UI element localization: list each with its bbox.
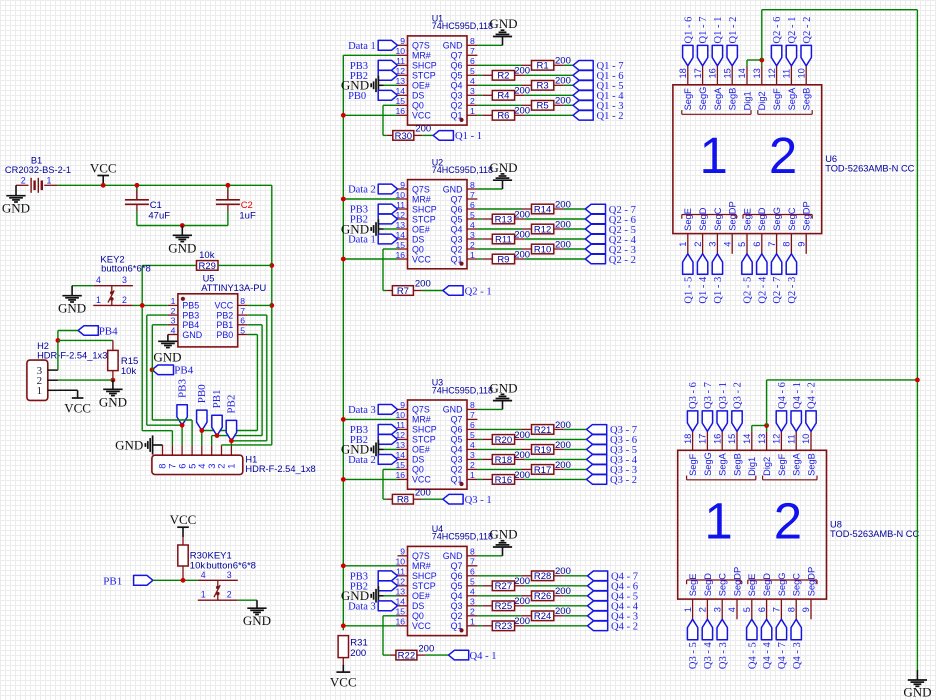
svg-text:Q3: Q3 — [451, 234, 463, 244]
svg-text:Q4 - 6: Q4 - 6 — [777, 382, 788, 409]
svg-text:Q7: Q7 — [451, 415, 463, 425]
svg-text:13: 13 — [752, 68, 762, 78]
svg-text:VCC: VCC — [214, 301, 233, 311]
svg-text:3: 3 — [207, 464, 217, 469]
svg-text:9: 9 — [400, 180, 405, 190]
svg-text:14: 14 — [737, 68, 747, 78]
svg-text:Q4 - 4: Q4 - 4 — [762, 642, 773, 670]
svg-text:HDR-F-2.54_1x3: HDR-F-2.54_1x3 — [37, 350, 107, 360]
svg-text:3: 3 — [470, 597, 475, 607]
svg-text:GND: GND — [489, 16, 517, 31]
svg-text:GND: GND — [903, 685, 931, 700]
svg-text:Q7: Q7 — [451, 561, 463, 571]
svg-text:R7: R7 — [397, 286, 409, 297]
svg-text:15: 15 — [727, 434, 737, 444]
svg-text:200: 200 — [555, 56, 571, 67]
svg-text:8: 8 — [786, 607, 796, 612]
svg-text:Q4 - 5: Q4 - 5 — [747, 642, 758, 669]
svg-text:200: 200 — [514, 576, 530, 587]
svg-text:17: 17 — [693, 68, 703, 78]
svg-text:1uF: 1uF — [239, 211, 256, 222]
svg-text:DS: DS — [412, 91, 424, 101]
svg-text:GND: GND — [489, 380, 517, 395]
svg-text:ATTINY13A-PU: ATTINY13A-PU — [201, 283, 266, 293]
svg-text:6: 6 — [757, 607, 767, 612]
svg-text:8: 8 — [470, 180, 475, 190]
svg-text:200: 200 — [350, 648, 366, 659]
svg-text:VCC: VCC — [412, 254, 431, 264]
svg-text:Q7S: Q7S — [412, 41, 430, 51]
svg-text:Q3 - 1: Q3 - 1 — [465, 495, 492, 506]
svg-text:C2: C2 — [241, 200, 253, 211]
svg-text:SegB: SegB — [728, 88, 738, 111]
svg-text:Q2 - 6: Q2 - 6 — [772, 17, 783, 44]
svg-text:VCC: VCC — [330, 675, 357, 690]
svg-text:SegE: SegE — [683, 208, 693, 231]
svg-text:2: 2 — [470, 96, 475, 106]
svg-text:5: 5 — [737, 242, 747, 247]
svg-text:4: 4 — [470, 220, 475, 230]
svg-text:Q4: Q4 — [451, 445, 463, 455]
svg-text:18: 18 — [678, 68, 688, 78]
svg-text:Q3 - 5: Q3 - 5 — [688, 642, 699, 669]
svg-text:7: 7 — [767, 242, 777, 247]
svg-text:200: 200 — [555, 440, 571, 451]
svg-text:4: 4 — [722, 242, 732, 247]
svg-text:200: 200 — [555, 219, 571, 230]
svg-text:4: 4 — [470, 76, 475, 86]
svg-text:3: 3 — [122, 275, 127, 285]
svg-text:R30: R30 — [395, 131, 412, 142]
svg-text:R22: R22 — [398, 651, 415, 662]
svg-text:MR#: MR# — [412, 415, 431, 425]
svg-text:GND: GND — [58, 301, 86, 316]
svg-text:Q4 - 1: Q4 - 1 — [470, 651, 497, 662]
svg-text:Data 3: Data 3 — [348, 602, 376, 613]
svg-text:200: 200 — [555, 606, 571, 617]
svg-text:R29: R29 — [198, 261, 215, 272]
svg-text:R13: R13 — [495, 214, 512, 225]
svg-text:R1: R1 — [537, 61, 549, 72]
svg-text:6: 6 — [752, 242, 762, 247]
svg-text:PB4: PB4 — [99, 325, 118, 337]
svg-text:Q1 - 1: Q1 - 1 — [713, 17, 724, 44]
svg-text:R4: R4 — [497, 91, 509, 102]
svg-text:7: 7 — [470, 190, 475, 200]
svg-text:GND: GND — [115, 437, 143, 452]
svg-text:Q1: Q1 — [451, 621, 463, 631]
svg-text:SegD: SegD — [703, 573, 713, 597]
svg-text:button6*6*8: button6*6*8 — [101, 264, 151, 275]
svg-text:8: 8 — [158, 464, 168, 469]
svg-text:Q2: Q2 — [451, 101, 463, 111]
svg-text:R19: R19 — [534, 445, 551, 456]
svg-text:R11: R11 — [495, 234, 512, 245]
svg-text:5: 5 — [470, 430, 475, 440]
svg-text:Q4 - 7: Q4 - 7 — [777, 642, 788, 669]
svg-text:Data 3: Data 3 — [348, 405, 376, 416]
svg-text:200: 200 — [555, 76, 571, 87]
svg-text:C1: C1 — [150, 200, 162, 211]
svg-text:DS: DS — [412, 601, 424, 611]
svg-text:6: 6 — [470, 200, 475, 210]
svg-text:Q1 - 3: Q1 - 3 — [713, 277, 724, 304]
svg-text:PB0: PB0 — [348, 91, 366, 102]
svg-text:Data 2: Data 2 — [348, 455, 376, 466]
svg-text:SegE: SegE — [747, 574, 757, 597]
svg-text:CR2032-BS-2-1: CR2032-BS-2-1 — [5, 165, 71, 175]
svg-text:74HC595D,118: 74HC595D,118 — [432, 21, 493, 31]
svg-text:1: 1 — [470, 250, 475, 260]
svg-text:9: 9 — [400, 36, 405, 46]
svg-text:200: 200 — [415, 279, 431, 290]
svg-text:Q3 - 2: Q3 - 2 — [733, 382, 744, 409]
svg-text:TOD-5263AMB-N CC: TOD-5263AMB-N CC — [830, 529, 919, 539]
svg-text:SegG: SegG — [698, 87, 708, 111]
svg-text:Q1 - 5: Q1 - 5 — [683, 277, 694, 304]
svg-text:2: 2 — [21, 176, 26, 186]
svg-text:VCC: VCC — [170, 512, 197, 527]
svg-text:7: 7 — [772, 607, 782, 612]
svg-text:Q7: Q7 — [451, 51, 463, 61]
svg-text:SegC: SegC — [718, 573, 728, 597]
svg-text:14: 14 — [742, 434, 752, 444]
svg-text:200: 200 — [514, 209, 530, 220]
svg-text:Q2 - 1: Q2 - 1 — [787, 17, 798, 44]
svg-text:MR#: MR# — [412, 561, 431, 571]
svg-text:9: 9 — [400, 547, 405, 557]
svg-text:Q3: Q3 — [451, 455, 463, 465]
svg-text:SegG: SegG — [772, 207, 782, 231]
svg-text:2: 2 — [698, 607, 708, 612]
svg-text:GND: GND — [443, 41, 463, 51]
svg-text:GND: GND — [443, 405, 463, 415]
svg-text:OE#: OE# — [412, 224, 430, 234]
svg-text:PB0: PB0 — [216, 330, 233, 340]
svg-text:R26: R26 — [534, 591, 551, 602]
svg-text:SegG: SegG — [703, 452, 713, 476]
svg-text:9: 9 — [796, 242, 806, 247]
svg-text:1: 1 — [37, 385, 43, 397]
svg-text:4: 4 — [171, 325, 176, 335]
svg-text:5: 5 — [187, 464, 197, 469]
svg-text:R27: R27 — [495, 581, 512, 592]
svg-text:1: 1 — [96, 295, 101, 305]
svg-text:1: 1 — [683, 607, 693, 612]
svg-text:8: 8 — [470, 400, 475, 410]
svg-text:4: 4 — [470, 587, 475, 597]
svg-text:1: 1 — [201, 590, 206, 600]
svg-text:Q1: Q1 — [451, 111, 463, 121]
svg-text:3: 3 — [470, 230, 475, 240]
svg-text:200: 200 — [514, 249, 530, 260]
svg-text:4: 4 — [96, 275, 101, 285]
svg-text:5: 5 — [470, 577, 475, 587]
svg-text:3: 3 — [470, 450, 475, 460]
svg-text:Q6: Q6 — [451, 204, 463, 214]
svg-text:10k: 10k — [121, 366, 137, 377]
svg-text:GND: GND — [2, 201, 30, 216]
svg-text:200: 200 — [415, 124, 431, 135]
svg-text:Dig1: Dig1 — [747, 457, 757, 476]
svg-text:SegC: SegC — [792, 573, 802, 597]
svg-text:SegA: SegA — [713, 87, 723, 111]
svg-text:Q2 - 2: Q2 - 2 — [802, 17, 813, 44]
svg-text:SegA: SegA — [792, 452, 802, 476]
svg-text:Q3 - 3: Q3 - 3 — [718, 642, 729, 669]
svg-text:12: 12 — [772, 434, 782, 444]
svg-text:OE#: OE# — [412, 445, 430, 455]
svg-text:STCP: STCP — [412, 214, 436, 224]
svg-text:2: 2 — [470, 607, 475, 617]
svg-text:18: 18 — [683, 434, 693, 444]
svg-text:R10: R10 — [534, 244, 551, 255]
svg-text:1: 1 — [227, 464, 237, 469]
svg-text:STCP: STCP — [412, 71, 436, 81]
svg-text:Q2: Q2 — [451, 465, 463, 475]
svg-text:Q3: Q3 — [451, 91, 463, 101]
svg-text:4: 4 — [470, 440, 475, 450]
svg-text:PB1: PB1 — [211, 389, 223, 408]
svg-text:SegG: SegG — [777, 573, 787, 597]
svg-text:2: 2 — [217, 464, 227, 469]
svg-text:200: 200 — [555, 566, 571, 577]
svg-text:R23: R23 — [495, 621, 512, 632]
svg-text:SegF: SegF — [683, 88, 693, 111]
svg-text:7: 7 — [240, 306, 245, 316]
svg-text:74HC595D,118: 74HC595D,118 — [432, 385, 493, 395]
svg-text:1: 1 — [470, 617, 475, 627]
svg-text:Q4: Q4 — [451, 81, 463, 91]
svg-text:PB1: PB1 — [103, 575, 122, 587]
svg-text:PB4: PB4 — [182, 320, 199, 330]
svg-text:Q4: Q4 — [451, 224, 463, 234]
svg-text:SegDP: SegDP — [802, 201, 812, 230]
svg-text:GND: GND — [489, 160, 517, 175]
svg-text:200: 200 — [555, 460, 571, 471]
svg-text:1: 1 — [171, 296, 176, 306]
svg-text:2: 2 — [470, 460, 475, 470]
svg-text:2: 2 — [470, 240, 475, 250]
svg-text:PB4: PB4 — [174, 365, 193, 377]
svg-text:10k: 10k — [199, 250, 215, 261]
svg-text:Q2 - 4: Q2 - 4 — [757, 276, 768, 304]
svg-text:Q5: Q5 — [451, 71, 463, 81]
svg-text:2: 2 — [122, 295, 127, 305]
svg-text:DS: DS — [412, 455, 424, 465]
svg-text:Q4 - 2: Q4 - 2 — [611, 622, 638, 633]
svg-text:Q1 - 2: Q1 - 2 — [597, 111, 624, 122]
svg-text:B1: B1 — [31, 156, 42, 166]
svg-text:200: 200 — [514, 450, 530, 461]
svg-text:MR#: MR# — [412, 51, 431, 61]
svg-text:Q3 - 6: Q3 - 6 — [688, 382, 699, 409]
svg-text:R28: R28 — [534, 571, 551, 582]
svg-text:3: 3 — [712, 607, 722, 612]
svg-text:VCC: VCC — [90, 160, 117, 175]
svg-text:PB3: PB3 — [176, 379, 188, 398]
svg-text:2: 2 — [774, 493, 802, 550]
svg-text:Q2: Q2 — [451, 244, 463, 254]
svg-text:Q3: Q3 — [451, 601, 463, 611]
svg-text:R17: R17 — [534, 465, 551, 476]
svg-text:6: 6 — [240, 316, 245, 326]
svg-text:8: 8 — [470, 36, 475, 46]
svg-text:200: 200 — [514, 616, 530, 627]
svg-text:VCC: VCC — [412, 111, 431, 121]
svg-text:SegE: SegE — [688, 574, 698, 597]
svg-text:HDR-F-2.54_1x8: HDR-F-2.54_1x8 — [245, 464, 315, 474]
svg-text:8: 8 — [782, 242, 792, 247]
svg-text:9: 9 — [400, 400, 405, 410]
svg-text:16: 16 — [708, 68, 718, 78]
svg-text:Q1 - 6: Q1 - 6 — [683, 17, 694, 44]
svg-text:7: 7 — [470, 46, 475, 56]
svg-text:1: 1 — [678, 242, 688, 247]
svg-text:R6: R6 — [497, 111, 509, 122]
svg-text:R18: R18 — [495, 455, 512, 466]
svg-text:47uF: 47uF — [148, 211, 170, 222]
svg-text:Q7S: Q7S — [412, 405, 430, 415]
svg-text:200: 200 — [514, 430, 530, 441]
svg-text:15: 15 — [722, 68, 732, 78]
svg-text:16: 16 — [712, 434, 722, 444]
svg-text:Q5: Q5 — [451, 214, 463, 224]
svg-text:6: 6 — [177, 464, 187, 469]
svg-text:Q0: Q0 — [412, 244, 424, 254]
svg-text:R5: R5 — [537, 101, 549, 112]
svg-text:SHCP: SHCP — [412, 425, 437, 435]
svg-text:3: 3 — [470, 86, 475, 96]
svg-text:GND: GND — [489, 527, 517, 542]
svg-text:R20: R20 — [495, 435, 512, 446]
svg-text:R8: R8 — [397, 495, 409, 506]
svg-text:200: 200 — [514, 229, 530, 240]
svg-text:Data 1: Data 1 — [348, 235, 376, 246]
svg-text:SegB: SegB — [802, 88, 812, 111]
svg-text:Q1: Q1 — [451, 254, 463, 264]
svg-text:VCC: VCC — [412, 621, 431, 631]
svg-text:SegF: SegF — [772, 88, 782, 111]
svg-text:Q4 - 3: Q4 - 3 — [792, 642, 803, 669]
svg-text:PB2: PB2 — [216, 310, 233, 320]
svg-text:10: 10 — [796, 68, 806, 78]
svg-text:2: 2 — [227, 590, 232, 600]
svg-text:GND: GND — [153, 350, 181, 365]
svg-text:VCC: VCC — [412, 475, 431, 485]
svg-text:Q3 - 2: Q3 - 2 — [610, 475, 637, 486]
svg-text:200: 200 — [555, 420, 571, 431]
svg-text:SegA: SegA — [718, 452, 728, 476]
svg-text:R16: R16 — [495, 475, 512, 486]
svg-text:8: 8 — [240, 296, 245, 306]
svg-text:13: 13 — [757, 434, 767, 444]
svg-text:Q0: Q0 — [412, 101, 424, 111]
svg-text:SegF: SegF — [777, 453, 787, 476]
svg-text:2: 2 — [171, 306, 176, 316]
svg-text:200: 200 — [555, 586, 571, 597]
svg-text:1: 1 — [700, 127, 728, 184]
svg-text:3: 3 — [171, 316, 176, 326]
svg-text:5: 5 — [240, 325, 245, 335]
svg-text:R14: R14 — [534, 204, 551, 215]
svg-text:Q3 - 4: Q3 - 4 — [703, 642, 714, 670]
svg-text:SegE: SegE — [742, 208, 752, 231]
svg-text:Q4: Q4 — [451, 591, 463, 601]
svg-text:Q7S: Q7S — [412, 184, 430, 194]
svg-text:2: 2 — [769, 127, 797, 184]
svg-text:R21: R21 — [534, 425, 551, 436]
svg-text:2: 2 — [693, 242, 703, 247]
svg-text:Q1 - 2: Q1 - 2 — [728, 17, 739, 44]
svg-text:Q2 - 1: Q2 - 1 — [465, 286, 492, 297]
svg-text:200: 200 — [415, 487, 431, 498]
svg-text:STCP: STCP — [412, 581, 436, 591]
svg-text:1: 1 — [46, 176, 51, 186]
svg-text:7: 7 — [470, 557, 475, 567]
svg-text:7: 7 — [470, 410, 475, 420]
svg-text:Q4 - 2: Q4 - 2 — [807, 382, 818, 409]
svg-text:200: 200 — [514, 86, 530, 97]
svg-text:4: 4 — [197, 464, 207, 469]
svg-text:Q2 - 7: Q2 - 7 — [772, 277, 783, 304]
svg-text:15: 15 — [395, 96, 405, 106]
svg-text:R2: R2 — [497, 71, 509, 82]
svg-text:10: 10 — [801, 434, 811, 444]
svg-text:3: 3 — [227, 570, 232, 580]
svg-text:DS: DS — [412, 234, 424, 244]
svg-text:STCP: STCP — [412, 435, 436, 445]
svg-text:12: 12 — [767, 68, 777, 78]
svg-text:200: 200 — [514, 596, 530, 607]
svg-text:200: 200 — [555, 199, 571, 210]
svg-text:Dig2: Dig2 — [762, 457, 772, 476]
svg-text:GND: GND — [168, 240, 196, 255]
svg-text:Q2 - 5: Q2 - 5 — [743, 277, 754, 304]
svg-text:SegD: SegD — [762, 573, 772, 597]
svg-text:GND: GND — [99, 394, 127, 409]
svg-text:Q6: Q6 — [451, 425, 463, 435]
svg-text:13: 13 — [395, 76, 405, 86]
svg-text:6: 6 — [470, 567, 475, 577]
svg-text:R25: R25 — [495, 601, 512, 612]
svg-text:SHCP: SHCP — [412, 571, 437, 581]
svg-text:SegD: SegD — [698, 207, 708, 231]
svg-text:Q2: Q2 — [451, 611, 463, 621]
svg-text:PB3: PB3 — [182, 310, 199, 320]
svg-text:17: 17 — [698, 434, 708, 444]
svg-text:Q0: Q0 — [412, 465, 424, 475]
svg-text:11: 11 — [786, 434, 796, 444]
svg-text:Q1 - 4: Q1 - 4 — [698, 276, 709, 304]
svg-text:1: 1 — [704, 493, 732, 550]
svg-text:Q2 - 3: Q2 - 3 — [787, 277, 798, 304]
svg-text:5: 5 — [470, 66, 475, 76]
svg-text:PB5: PB5 — [182, 301, 199, 311]
svg-text:8: 8 — [470, 547, 475, 557]
svg-text:Data 2: Data 2 — [348, 185, 376, 196]
svg-text:Q7: Q7 — [451, 194, 463, 204]
svg-text:Q6: Q6 — [451, 61, 463, 71]
svg-text:GND: GND — [182, 330, 202, 340]
svg-text:Q6: Q6 — [451, 571, 463, 581]
svg-text:MR#: MR# — [412, 194, 431, 204]
svg-text:OE#: OE# — [412, 591, 430, 601]
svg-text:Data 1: Data 1 — [348, 41, 376, 52]
svg-text:16: 16 — [395, 106, 405, 116]
svg-text:GND: GND — [443, 551, 463, 561]
svg-text:SegF: SegF — [688, 453, 698, 476]
